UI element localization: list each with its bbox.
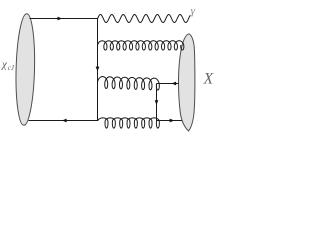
wire: internal quark propagator (vertical 1) (97, 19, 99, 122)
arrow on bottom quark line (62, 119, 67, 123)
arrow on vertical 2 (155, 100, 159, 105)
arrow on vertical 1 (96, 67, 100, 72)
photon gamma (98, 15, 191, 23)
wire: top quark line (30, 18, 99, 20)
wire: bottom quark line to X (157, 120, 182, 122)
wire: quark line to X (middle) (157, 83, 179, 85)
hadron blob X (right) (179, 34, 195, 131)
svg-text:X: X (203, 70, 214, 87)
wire: bottom quark line (29, 120, 99, 122)
arrow on middle quark to X (172, 82, 177, 86)
gluon g1 (98, 41, 184, 50)
svg-text:cJ: cJ (8, 64, 15, 72)
hadron blob chi_cJ (left) (15, 13, 36, 125)
wire: internal quark propagator (vertical 2) (156, 84, 158, 122)
svg-text:γ: γ (191, 5, 196, 17)
arrow on bottom quark to X (170, 119, 175, 123)
gluon g3 (98, 118, 159, 128)
gluon g2 (98, 77, 160, 90)
arrow on top quark line (58, 17, 63, 21)
